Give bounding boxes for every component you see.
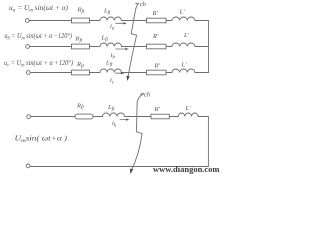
svg-text:R′: R′ <box>152 33 159 40</box>
inductor L' bottom <box>178 113 198 117</box>
resistor R' bottom <box>151 114 169 119</box>
source terminal bottom return <box>26 164 30 168</box>
svg-text:ch: ch <box>144 92 150 99</box>
wire phase B to L' <box>166 46 172 48</box>
wire phase A to bus <box>195 20 209 22</box>
wire bottom mid <box>93 116 103 118</box>
breaker ch bottom tick <box>141 93 144 95</box>
wire bottom to right bus <box>198 116 208 118</box>
breaker ch bottom polyline <box>131 94 144 172</box>
wire bottom right of coil <box>125 116 152 118</box>
wire phase A to L' <box>166 20 172 22</box>
right bus bottom circuit <box>207 117 209 167</box>
svg-text:ch: ch <box>140 1 146 8</box>
wire phase B left <box>30 46 72 48</box>
wire phase C mid <box>90 72 101 74</box>
label equation Um bottom <box>15 134 68 144</box>
wire phase B mid <box>90 46 101 48</box>
current arrow ia <box>116 22 127 24</box>
svg-text:www.diangon.com: www.diangon.com <box>153 165 220 174</box>
label equation ua <box>9 4 69 14</box>
label ch top <box>140 1 146 8</box>
right bus short-circuit top <box>208 21 210 73</box>
resistor R' phase B <box>147 44 167 49</box>
wire phase C left <box>30 72 71 74</box>
wire phase C right <box>122 72 147 74</box>
wire phase A mid <box>90 20 101 22</box>
svg-text:R′: R′ <box>154 106 161 113</box>
label L' phase B <box>183 32 190 39</box>
label R' phase B <box>152 33 159 40</box>
resistor Rfl bottom <box>75 114 93 119</box>
svg-text:L′: L′ <box>181 62 188 69</box>
label R' phase C <box>154 63 161 70</box>
breaker top arrowhead <box>126 76 129 81</box>
label Rfl phase A <box>77 7 85 15</box>
label L' phase C <box>181 62 188 69</box>
label ib <box>111 52 116 60</box>
current arrow ib <box>116 48 129 50</box>
breaker bottom arrowhead <box>130 169 133 174</box>
label ik <box>112 120 117 128</box>
resistor Rfl phase A <box>72 18 90 23</box>
source terminal phase A <box>25 19 29 23</box>
label Lfl bottom <box>107 104 115 112</box>
current arrow ik <box>120 118 129 120</box>
breaker ch top polyline <box>128 3 139 79</box>
resistor R' phase C <box>147 70 167 75</box>
inductor Lfl phase B <box>100 43 121 47</box>
label Lfl phase C <box>105 60 113 68</box>
wire phase C to L' <box>166 72 172 74</box>
watermark www.diangon.com <box>153 165 220 174</box>
inductor L' phase C <box>172 69 195 73</box>
label R' phase A <box>152 10 159 17</box>
inductor Lfl phase C <box>100 69 121 73</box>
label Lfl phase A <box>103 8 111 16</box>
label Lfl phase B <box>101 35 109 43</box>
source terminal phase B <box>26 45 30 49</box>
resistor R' phase A <box>147 18 167 23</box>
breaker ch top tick <box>136 2 139 4</box>
wire phase A right <box>122 20 147 22</box>
wire bottom to L' <box>169 116 178 118</box>
inductor Lfl phase A <box>100 17 121 21</box>
label Rfl phase B <box>75 36 83 44</box>
label equation ub <box>4 32 72 42</box>
wire phase B to bus <box>195 46 209 48</box>
wire phase A left <box>29 20 71 22</box>
label L' bottom <box>185 105 192 112</box>
svg-text:L′: L′ <box>185 105 192 112</box>
wire bottom left <box>31 116 75 118</box>
wire phase B right <box>122 46 147 48</box>
svg-text:R′: R′ <box>152 10 159 17</box>
wire phase C to bus <box>195 72 209 74</box>
label Rfl phase C <box>76 61 84 69</box>
inductor L' phase A <box>172 17 195 21</box>
current arrow ic <box>116 72 125 74</box>
bottom return wire <box>30 166 208 168</box>
label Rfl bottom <box>76 102 84 110</box>
label L' phase A <box>179 9 186 16</box>
label equation uc <box>4 59 74 69</box>
source terminal phase C <box>26 71 30 75</box>
label ia <box>110 23 115 31</box>
resistor Rfl phase B <box>72 44 90 49</box>
svg-text:L′: L′ <box>179 9 186 16</box>
source terminal bottom top <box>27 115 31 119</box>
inductor Lfl bottom <box>103 113 125 117</box>
label ch bottom <box>144 92 150 99</box>
label R' bottom <box>154 106 161 113</box>
svg-text:R′: R′ <box>154 63 161 70</box>
resistor Rfl phase C <box>72 70 90 75</box>
svg-text:L′: L′ <box>183 32 190 39</box>
label ic <box>110 77 115 85</box>
inductor L' phase B <box>172 43 195 47</box>
